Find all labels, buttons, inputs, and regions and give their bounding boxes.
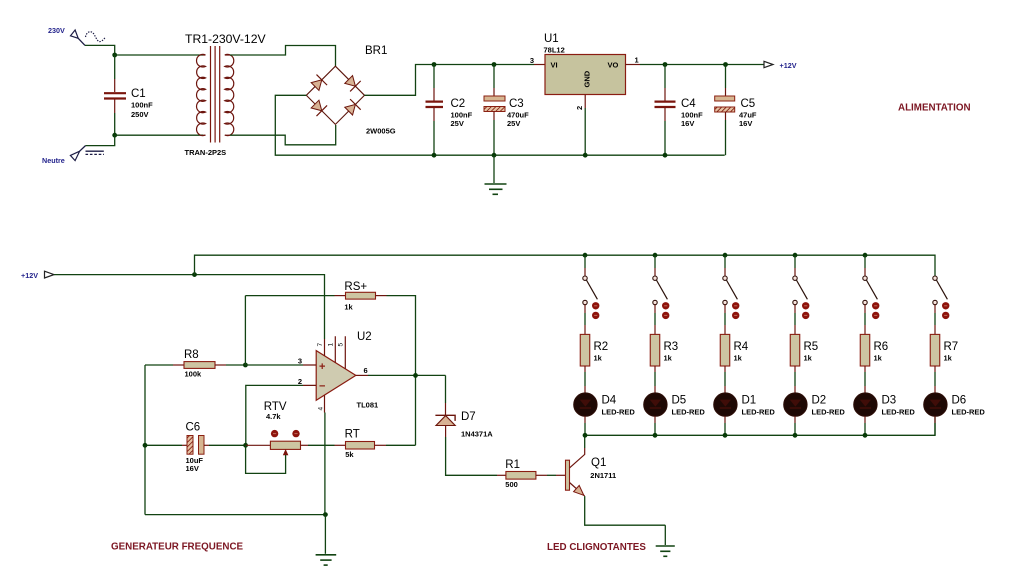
svg-text:16V: 16V bbox=[739, 119, 752, 128]
transistor Q1 2N1711 bbox=[556, 435, 665, 525]
svg-text:Q1: Q1 bbox=[591, 457, 606, 469]
svg-text:LED-RED: LED-RED bbox=[812, 408, 846, 417]
svg-text:D2: D2 bbox=[812, 395, 827, 407]
svg-text:R3: R3 bbox=[664, 341, 679, 353]
svg-text:100nF: 100nF bbox=[131, 101, 153, 110]
svg-text:C2: C2 bbox=[451, 98, 466, 110]
terminal Neutre bbox=[42, 146, 86, 165]
diode bridge D-botleft bbox=[310, 99, 327, 116]
svg-text:100k: 100k bbox=[185, 370, 203, 379]
neutral symbol bbox=[86, 151, 105, 154]
svg-text:LED-RED: LED-RED bbox=[952, 408, 986, 417]
diode bridge D-topleft bbox=[310, 75, 327, 92]
wire R8 left vertical bbox=[144, 365, 146, 515]
svg-text:D4: D4 bbox=[602, 395, 617, 407]
capacitor C3 electrolytic bbox=[484, 65, 529, 156]
potentiometer RTV bbox=[246, 401, 335, 473]
svg-text:R6: R6 bbox=[874, 341, 889, 353]
svg-text:RT: RT bbox=[345, 429, 360, 441]
svg-text:1k: 1k bbox=[944, 354, 953, 363]
node dc+ C2 bbox=[432, 62, 437, 67]
svg-text:+: + bbox=[319, 361, 325, 373]
node neutral junction bbox=[112, 133, 117, 138]
svg-text:6: 6 bbox=[364, 366, 368, 375]
svg-text:1k: 1k bbox=[734, 354, 743, 363]
svg-text:LED-RED: LED-RED bbox=[742, 408, 776, 417]
node out C4 bbox=[663, 62, 668, 67]
svg-text:250V: 250V bbox=[131, 110, 149, 119]
svg-text:C6: C6 bbox=[186, 422, 201, 434]
wire live input bbox=[85, 45, 115, 55]
svg-text:5: 5 bbox=[338, 343, 345, 347]
node output bbox=[413, 373, 418, 378]
svg-text:TRAN-2P2S: TRAN-2P2S bbox=[185, 148, 227, 157]
svg-text:GENERATEUR FREQUENCE: GENERATEUR FREQUENCE bbox=[111, 542, 244, 553]
svg-text:LED-RED: LED-RED bbox=[672, 408, 706, 417]
node gnd C2 bbox=[432, 153, 437, 158]
node gnd junction bbox=[323, 512, 328, 517]
svg-text:VI: VI bbox=[551, 61, 558, 70]
node dc+ C3 bbox=[492, 62, 497, 67]
svg-text:2N1711: 2N1711 bbox=[590, 471, 616, 480]
branch R2/D4 bbox=[574, 253, 636, 438]
svg-text:C1: C1 bbox=[131, 88, 146, 100]
ground freqgen bbox=[316, 515, 337, 566]
wire bridge minus to ground rail bbox=[275, 95, 724, 155]
svg-text:5k: 5k bbox=[345, 450, 354, 459]
branch R6/D3 bbox=[854, 253, 916, 438]
svg-text:1: 1 bbox=[328, 343, 335, 347]
diode bridge D-topright bbox=[343, 74, 360, 91]
node out C5 bbox=[723, 62, 728, 67]
wire neutre bbox=[86, 135, 115, 145]
svg-text:C5: C5 bbox=[741, 98, 756, 110]
ground power bbox=[485, 155, 507, 194]
svg-text:TR1-230V-12V: TR1-230V-12V bbox=[185, 32, 266, 46]
wire output node bbox=[368, 374, 446, 376]
svg-text:R2: R2 bbox=[594, 341, 609, 353]
svg-text:LED-RED: LED-RED bbox=[882, 408, 916, 417]
svg-text:7: 7 bbox=[317, 343, 324, 347]
svg-text:U1: U1 bbox=[544, 33, 559, 45]
terminal 230V input bbox=[48, 26, 85, 45]
capacitor C1 bbox=[104, 55, 153, 135]
svg-text:1k: 1k bbox=[874, 354, 883, 363]
svg-text:C4: C4 bbox=[681, 98, 696, 110]
wire neutral rail to transformer bbox=[115, 134, 203, 136]
svg-text:230V: 230V bbox=[48, 26, 65, 35]
branch R7/D6 bbox=[924, 276, 986, 435]
branch R3/D5 bbox=[644, 253, 706, 438]
svg-text:1k: 1k bbox=[804, 354, 813, 363]
wire pin4 to gnd bbox=[324, 413, 326, 515]
wire pin2 bbox=[246, 385, 303, 445]
svg-text:D1: D1 bbox=[742, 395, 757, 407]
svg-text:1: 1 bbox=[635, 56, 639, 65]
svg-text:TL081: TL081 bbox=[357, 401, 379, 410]
svg-text:D7: D7 bbox=[461, 411, 476, 423]
resistor RS+ bbox=[245, 281, 415, 445]
wire top rail to transformer bbox=[115, 54, 203, 56]
node +12V branch bbox=[192, 272, 197, 277]
branch R5/D2 bbox=[784, 253, 846, 438]
svg-text:R4: R4 bbox=[734, 341, 749, 353]
svg-text:VO: VO bbox=[608, 61, 619, 70]
wire secondary bottom to bridge bbox=[230, 125, 336, 145]
diode bridge D-botright bbox=[343, 99, 360, 116]
wire RS+ vertical bbox=[244, 296, 246, 365]
branch R4/D1 bbox=[714, 253, 776, 438]
wire led bottom rail bbox=[585, 416, 935, 435]
wire bridge plus to U1 bbox=[365, 65, 535, 96]
capacitor C2 bbox=[426, 65, 473, 156]
node C6/RTV/pin2 bbox=[243, 443, 248, 448]
svg-text:4.7k: 4.7k bbox=[266, 412, 281, 421]
svg-text:16V: 16V bbox=[186, 464, 199, 473]
svg-text:4: 4 bbox=[318, 407, 325, 411]
svg-text:1k: 1k bbox=[664, 354, 673, 363]
svg-text:+12V: +12V bbox=[21, 271, 38, 280]
svg-text:500: 500 bbox=[505, 480, 518, 489]
op-amp U2 TL081 bbox=[298, 331, 378, 413]
svg-text:+12V: +12V bbox=[780, 61, 797, 70]
wire led top rail bbox=[195, 255, 936, 276]
svg-text:U2: U2 bbox=[357, 331, 372, 343]
svg-text:LED-RED: LED-RED bbox=[602, 408, 636, 417]
wire freq gnd bottom bbox=[145, 514, 325, 516]
bridge BR1 diamond bbox=[306, 45, 395, 136]
node C4 gnd bbox=[663, 153, 668, 158]
svg-text:R5: R5 bbox=[804, 341, 819, 353]
svg-text:1N4371A: 1N4371A bbox=[461, 430, 493, 439]
transformer TR1 bbox=[185, 32, 267, 157]
wire secondary top to bridge bbox=[230, 46, 336, 67]
svg-text:Neutre: Neutre bbox=[42, 156, 65, 165]
svg-text:3: 3 bbox=[530, 56, 534, 65]
svg-text:ALIMENTATION: ALIMENTATION bbox=[898, 103, 971, 114]
node C6 left bbox=[143, 443, 148, 448]
terminal +12V supply bbox=[21, 271, 54, 280]
regulator U1 78L12 bbox=[530, 33, 640, 155]
svg-text:LED CLIGNOTANTES: LED CLIGNOTANTES bbox=[547, 542, 646, 553]
svg-text:RS+: RS+ bbox=[344, 281, 367, 293]
svg-text:D6: D6 bbox=[952, 395, 967, 407]
actuator dots RTV bbox=[271, 430, 278, 437]
ground Q1 bbox=[656, 525, 675, 556]
svg-text:25V: 25V bbox=[507, 119, 520, 128]
svg-text:R1: R1 bbox=[505, 459, 520, 471]
svg-text:D5: D5 bbox=[672, 395, 687, 407]
svg-text:−: − bbox=[319, 381, 325, 393]
svg-text:16V: 16V bbox=[681, 119, 694, 128]
diode D7 zener bbox=[435, 403, 497, 475]
resistor R8 bbox=[145, 349, 245, 379]
capacitor C5 electrolytic bbox=[715, 65, 757, 156]
svg-text:25V: 25V bbox=[451, 119, 464, 128]
svg-text:GND: GND bbox=[583, 70, 592, 87]
svg-text:1k: 1k bbox=[594, 354, 603, 363]
svg-text:R8: R8 bbox=[184, 349, 199, 361]
svg-text:R7: R7 bbox=[944, 341, 959, 353]
capacitor C6 electrolytic bbox=[145, 422, 245, 474]
svg-text:BR1: BR1 bbox=[365, 45, 387, 57]
svg-text:3: 3 bbox=[298, 357, 302, 366]
svg-text:C3: C3 bbox=[509, 98, 524, 110]
terminal +12V output bbox=[764, 61, 797, 70]
sine symbol bbox=[86, 32, 106, 42]
resistor RT bbox=[335, 429, 416, 460]
svg-text:2W005G: 2W005G bbox=[366, 127, 396, 136]
node R8/pin3/RS+ bbox=[243, 363, 248, 368]
wire pin3 bbox=[245, 364, 303, 366]
capacitor C4 bbox=[655, 65, 704, 156]
svg-text:2: 2 bbox=[575, 106, 584, 110]
wire U1 out bbox=[640, 64, 764, 66]
node live junction bbox=[112, 53, 117, 58]
node gnd C3 bbox=[492, 153, 497, 158]
svg-text:2: 2 bbox=[298, 377, 302, 386]
wire +12V feed bbox=[54, 275, 325, 339]
svg-text:D3: D3 bbox=[882, 395, 897, 407]
svg-text:1k: 1k bbox=[344, 303, 353, 312]
svg-text:78L12: 78L12 bbox=[544, 46, 565, 55]
wire output to D7 bbox=[445, 375, 447, 403]
node U1 gnd bbox=[583, 153, 588, 158]
resistor R1 bbox=[497, 459, 556, 489]
